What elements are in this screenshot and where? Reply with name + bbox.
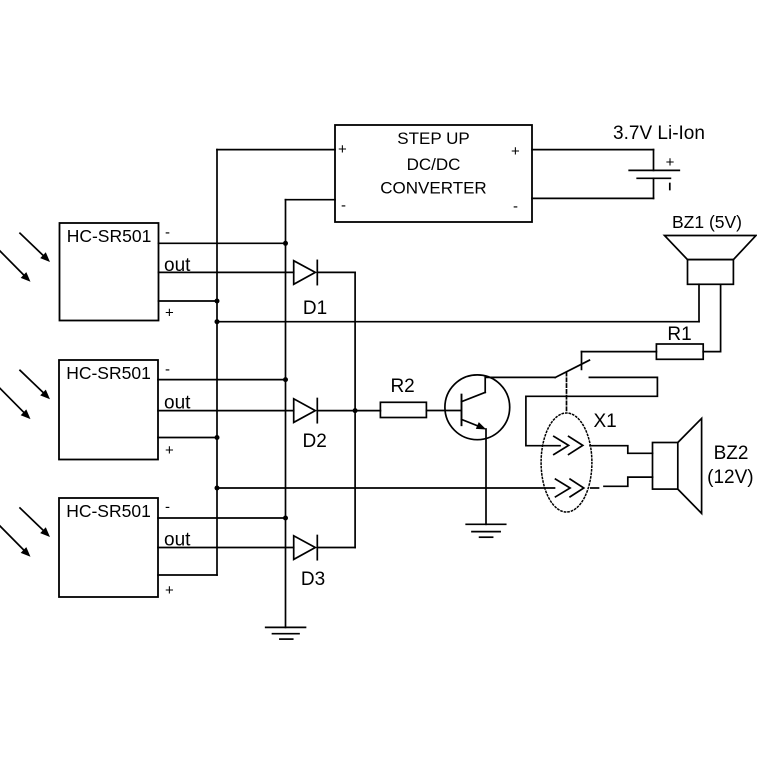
wire X1 lower right segment <box>591 487 599 489</box>
node junction <box>283 516 288 521</box>
svg-text:+: + <box>165 442 174 459</box>
sensor U3 HC-SR501 <box>59 498 158 597</box>
node junction <box>283 377 288 382</box>
wire U2 minus <box>158 379 286 381</box>
wire U3 out <box>158 547 294 549</box>
wire to BZ2 lower <box>604 477 653 486</box>
wire BZ1 left lead <box>698 284 700 321</box>
svg-text:3.7V Li-Ion: 3.7V Li-Ion <box>613 123 705 144</box>
sensor U2 HC-SR501 <box>59 360 158 460</box>
transistor Q1 <box>445 375 510 440</box>
ground under minus rail <box>266 627 306 639</box>
arrow into U1 <box>0 251 31 282</box>
ground under transistor <box>466 524 506 537</box>
switch S1 blade <box>555 360 589 377</box>
resistor R1 <box>656 344 703 359</box>
node junction <box>215 299 220 304</box>
node junction <box>215 319 220 324</box>
buzzer BZ1 <box>665 236 757 285</box>
svg-text:BZ2: BZ2 <box>714 443 749 464</box>
svg-text:D1: D1 <box>303 298 327 319</box>
wire emitter to ground <box>485 429 487 524</box>
wire minus input to converter <box>286 199 336 201</box>
X1 lower contact chevrons <box>556 479 584 497</box>
svg-text:-: - <box>513 198 518 215</box>
svg-text:HC-SR501: HC-SR501 <box>66 363 151 383</box>
svg-text:X1: X1 <box>594 411 617 432</box>
wire R1 to BZ1 <box>703 284 720 351</box>
svg-text:BZ1 (5V): BZ1 (5V) <box>672 212 742 232</box>
arrow into U2 <box>20 370 50 399</box>
node junction <box>215 486 220 491</box>
svg-text:D3: D3 <box>301 569 325 590</box>
svg-text:+: + <box>511 143 520 160</box>
svg-text:HC-SR501: HC-SR501 <box>67 226 152 246</box>
buzzer BZ2 <box>653 418 702 513</box>
wire cathode bus <box>354 272 356 547</box>
wire U2 plus <box>158 437 217 439</box>
arrow into U1 <box>20 233 50 262</box>
svg-text:DC/DC: DC/DC <box>407 155 461 174</box>
wire 5V rail to BZ1 <box>217 321 699 323</box>
wire plus input to converter <box>217 149 335 151</box>
switch S1 fixed contact stub <box>581 352 583 370</box>
arrow into U2 <box>0 388 31 419</box>
svg-text:-: - <box>165 499 170 516</box>
svg-text:R2: R2 <box>390 376 414 397</box>
wire D3 cathode <box>317 547 355 549</box>
connector X1 <box>541 411 617 512</box>
svg-text:HC-SR501: HC-SR501 <box>66 501 151 521</box>
wire U1 plus <box>159 300 218 302</box>
wire U2 out <box>158 410 294 412</box>
node junction <box>215 435 220 440</box>
svg-text:-: - <box>165 361 170 378</box>
converter U4 STEP UP DC/DC <box>335 125 532 222</box>
svg-text:+: + <box>338 141 347 158</box>
node junction <box>353 408 358 413</box>
diode D2 <box>294 399 327 453</box>
svg-text:+: + <box>666 154 675 171</box>
arrow into U3 <box>20 508 50 537</box>
wire D2 cathode to R2 <box>317 410 380 412</box>
sensor U1 HC-SR501 <box>60 223 159 321</box>
diode D3 <box>294 536 325 591</box>
wire switch right contact <box>526 377 658 445</box>
svg-text:-: - <box>165 224 170 241</box>
wire minus rail vertical <box>285 200 287 628</box>
resistor R2 <box>380 402 426 417</box>
svg-text:-: - <box>341 197 346 214</box>
wire switch to R1 <box>582 351 657 353</box>
wire plus rail vertical <box>216 150 218 575</box>
X1 upper contact chevrons <box>554 436 583 454</box>
svg-text:(12V): (12V) <box>707 467 753 488</box>
wire U3 minus <box>158 517 286 519</box>
svg-text:D2: D2 <box>303 431 327 452</box>
wire collector to switch <box>486 376 555 378</box>
wire U1 minus <box>159 242 286 244</box>
arrow into U3 <box>0 526 31 557</box>
svg-text:+: + <box>165 582 174 599</box>
svg-text:STEP UP: STEP UP <box>397 129 469 148</box>
node junction <box>283 241 288 246</box>
wire U3 plus <box>158 574 217 576</box>
wire to X1 lower contact <box>217 487 555 489</box>
dashed link to jack <box>566 372 568 412</box>
diode D1 <box>294 260 327 319</box>
wire R2 to base <box>426 410 460 412</box>
svg-text:+: + <box>165 305 174 322</box>
wire D1 cathode <box>317 271 355 273</box>
svg-text:R1: R1 <box>667 324 691 345</box>
svg-text:CONVERTER: CONVERTER <box>380 179 486 198</box>
wire X1 upper to BZ2 <box>590 446 653 454</box>
wire U1 out <box>159 271 294 273</box>
battery BT1 <box>532 150 679 199</box>
